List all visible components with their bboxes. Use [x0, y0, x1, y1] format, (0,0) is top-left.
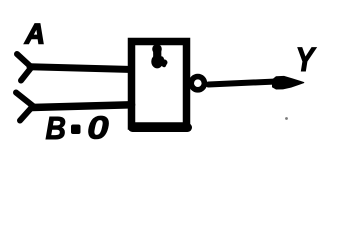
input connector A (chevron) [17, 54, 32, 81]
AND gate U1 (IEC rectangle body) [132, 42, 187, 127]
equals sign [71, 125, 81, 135]
node B label [46, 117, 65, 139]
wire Y (output) [209, 82, 277, 85]
wire B [32, 105, 132, 108]
node Y label [298, 48, 316, 71]
stray dot [285, 117, 288, 120]
inversion bubble [191, 77, 204, 90]
wire A [30, 67, 132, 70]
arrowhead [272, 76, 304, 90]
node A label [24, 24, 43, 44]
input connector B (chevron) [16, 93, 33, 121]
AND gate bottom heavy stroke [133, 123, 188, 132]
AND function symbol & [151, 44, 164, 68]
constant 0 label [89, 116, 109, 139]
